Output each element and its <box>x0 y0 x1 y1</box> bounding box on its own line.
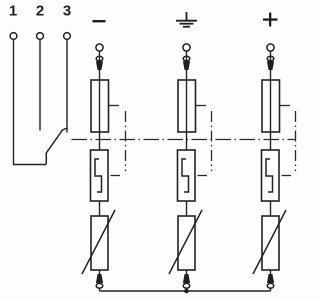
wire through fuse F3 <box>270 80 272 150</box>
wire <box>270 201 272 216</box>
fuse F2 <box>178 80 196 132</box>
thermal disconnect arrow col 1 <box>96 274 103 283</box>
terminal circle 3 <box>64 33 71 40</box>
disconnector switch box S3 <box>262 150 280 201</box>
minus polarity label <box>93 20 106 22</box>
wire <box>186 270 188 291</box>
plug-in disconnect contact ring <box>183 56 190 61</box>
thermal disconnect ring col 3 <box>267 283 274 288</box>
vertical chain line col 3 <box>295 111 297 171</box>
varistor RV2 diagonal <box>169 210 202 274</box>
chain elbow into disconnector box 1 <box>111 175 121 177</box>
earth symbol <box>176 12 197 27</box>
disconnector contact glyph S2 <box>182 159 189 192</box>
thermal disconnect ring col 1 <box>96 283 103 288</box>
terminal circle PE <box>183 44 190 51</box>
plug-in disconnect contact arrow <box>96 61 103 70</box>
varistor RV2 body <box>178 216 195 270</box>
chain elbow into disconnector box 3 <box>282 175 292 177</box>
wire terminal 3 down (NO contact) <box>66 40 68 133</box>
chain link fuse F3 to vertical <box>280 105 290 107</box>
wire terminal 1 down and right (switch common) <box>14 40 47 165</box>
common bottom rail <box>100 290 271 292</box>
chain link fuse F1 to vertical <box>109 105 119 107</box>
disconnector contact glyph S1 <box>95 159 102 192</box>
terminal circle 2 <box>37 33 44 40</box>
plug-in disconnect contact arrow <box>267 61 274 70</box>
junction dot on rail <box>184 289 189 294</box>
wire terminal 2 down (NC contact) <box>39 40 41 131</box>
thermal disconnect ring col 2 <box>183 283 190 288</box>
disconnector contact glyph S3 <box>266 159 273 192</box>
disconnector switch box S1 <box>91 150 109 201</box>
svg-text:1: 1 <box>9 3 17 20</box>
wire <box>99 270 101 291</box>
varistor RV1 diagonal <box>82 210 115 274</box>
wire <box>186 51 188 80</box>
plug-in disconnect contact ring <box>96 56 103 61</box>
wire through fuse F2 <box>186 80 188 150</box>
thermal disconnect arrow col 3 <box>267 274 274 283</box>
chain link fuse F2 to vertical <box>196 105 206 107</box>
thermal disconnect arrow col 2 <box>183 274 190 283</box>
switch arm (changeover contact) <box>46 130 62 165</box>
plug-in disconnect contact ring <box>267 56 274 61</box>
switch arm tip hook <box>62 128 68 131</box>
plus polarity label <box>263 13 278 27</box>
fuse F3 <box>262 80 280 132</box>
wire <box>270 270 272 291</box>
varistor RV1 body <box>91 216 108 270</box>
fuse F1 <box>91 80 109 132</box>
vertical chain line col 1 <box>125 111 127 171</box>
svg-text:2: 2 <box>36 3 44 20</box>
terminal circle L- <box>96 44 103 51</box>
wire <box>270 51 272 80</box>
varistor RV3 diagonal <box>253 210 286 274</box>
wire <box>99 201 101 216</box>
wire through fuse F1 <box>99 80 101 150</box>
horizontal mechanical linkage chain line <box>72 139 297 141</box>
wire <box>186 201 188 216</box>
plug-in disconnect contact arrow <box>183 61 190 70</box>
wire <box>99 51 101 80</box>
disconnector switch box S2 <box>178 150 196 201</box>
varistor RV3 body <box>262 216 279 270</box>
terminal circle 1 <box>10 33 17 40</box>
terminal circle L+ <box>267 44 274 51</box>
svg-text:3: 3 <box>63 3 71 20</box>
chain elbow into disconnector box 2 <box>198 175 208 177</box>
vertical chain line col 2 <box>211 111 213 171</box>
